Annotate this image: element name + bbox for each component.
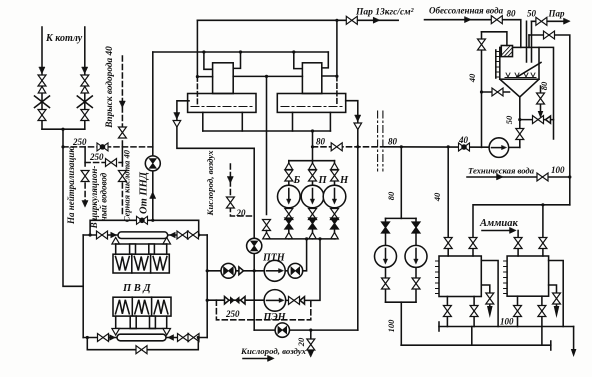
hatch ticks tank2 xyxy=(504,261,508,294)
svg-text:50: 50 xyxy=(527,9,537,19)
svg-text:40: 40 xyxy=(458,135,469,145)
node stub3 xyxy=(292,50,295,53)
pump discharge header xyxy=(267,238,336,240)
Б П Н pump group header xyxy=(289,160,335,162)
svg-text:80: 80 xyxy=(386,191,396,200)
svg-text:250: 250 xyxy=(89,152,104,162)
wire stub into column2 right xyxy=(322,52,329,68)
node top bypass legs xyxy=(89,233,92,236)
valve on hydrogen line xyxy=(118,127,126,138)
arrow on pipe 1 xyxy=(39,67,45,74)
valves below pump Б xyxy=(285,209,293,220)
stub pipes bottom heater xyxy=(130,316,136,328)
ПЭН pump xyxy=(264,290,286,312)
W coil 1 xyxy=(116,257,130,271)
svg-text:100: 100 xyxy=(386,319,396,333)
valve demin xyxy=(491,16,502,24)
flange triangle pipe 2 xyxy=(81,87,89,94)
boiler feed pipe 1 (К котлу) xyxy=(41,27,43,129)
svg-text:К котлу: К котлу xyxy=(45,33,83,44)
arrow end neutralization xyxy=(82,201,88,208)
tank left circuit 40 xyxy=(481,32,483,148)
feed pump ПВН xyxy=(489,138,509,158)
tank2 legs xyxy=(292,112,294,131)
cone tip drain / pump discharge riser xyxy=(519,97,521,147)
svg-text:От ПНД: От ПНД xyxy=(139,171,150,214)
ПТН discharge riser xyxy=(303,239,307,271)
neutralization branch V1 xyxy=(84,147,86,166)
svg-text:Впрыск водорода 40: Впрыск водорода 40 xyxy=(104,46,115,129)
node riser tee xyxy=(151,219,154,222)
tank1 legs xyxy=(202,112,204,131)
node stub2 xyxy=(239,50,242,53)
inter header drops xyxy=(472,327,542,346)
ПВД right edge xyxy=(206,235,208,338)
svg-text:П В Д: П В Д xyxy=(122,283,151,294)
wire: left main downcomer xyxy=(63,129,83,286)
technical water line xyxy=(467,176,570,178)
valve on bottom bypass xyxy=(136,346,147,354)
control valve circle on crossover xyxy=(275,323,289,337)
control valve circle on riser xyxy=(145,156,160,171)
bottom suction crossover line xyxy=(254,329,358,331)
oxygen line to ПТН suction (dashed 20) xyxy=(230,164,254,216)
svg-text:50: 50 xyxy=(504,115,514,124)
valve on drain header xyxy=(97,143,108,151)
feed tank body xyxy=(500,47,539,79)
hydrogen injection line (dashed, Впрыск водорода 40) xyxy=(121,56,123,147)
deaerator tank 1 xyxy=(188,94,256,113)
svg-text:100: 100 xyxy=(551,165,565,175)
tank2 side drain with valve xyxy=(549,285,557,306)
valve 40 on feed line xyxy=(459,143,470,151)
steam supply line Пар xyxy=(532,20,568,22)
cross line at 119.6 xyxy=(520,119,554,121)
acid line lower part (Серная кислота) xyxy=(121,147,123,166)
svg-text:Аммиак: Аммиак xyxy=(479,218,518,229)
overflow 80 line xyxy=(539,47,554,139)
droppers from bottom box xyxy=(116,316,167,328)
valve on 80 line xyxy=(331,143,342,151)
svg-text:40: 40 xyxy=(432,192,442,202)
annotation arrow ammonia xyxy=(482,230,513,232)
svg-text:Пар: Пар xyxy=(548,9,566,19)
top bypass pipe xyxy=(90,220,199,235)
valve on neutralization branch xyxy=(81,171,89,182)
suction control valve in circle xyxy=(221,263,236,278)
svg-text:Техническая вода: Техническая вода xyxy=(468,166,535,176)
dosing branch 1 xyxy=(385,218,387,302)
section break marks (dash-dot pair) xyxy=(377,111,379,171)
svg-text:ПЭН: ПЭН xyxy=(263,312,287,323)
valves below pump П xyxy=(309,209,317,220)
ПЭН discharge xyxy=(286,239,320,301)
anchor triangles bottom xyxy=(109,334,116,341)
svg-text:Пар 13кгс/см²: Пар 13кгс/см² xyxy=(355,8,415,18)
ПТН suction line xyxy=(207,270,264,272)
drop to waste header xyxy=(400,302,402,345)
dosing pump 2 xyxy=(405,245,427,267)
pump Н xyxy=(323,185,346,208)
connector line above bottom capsule xyxy=(116,328,167,330)
valve below pump 1 xyxy=(382,278,390,289)
valve on top bypass xyxy=(137,216,148,224)
ammonia inlet stub xyxy=(517,231,519,257)
drain header 100 xyxy=(439,326,574,328)
svg-text:ный водовод: ный водовод xyxy=(99,172,109,221)
tank bottom link xyxy=(482,91,510,93)
upper right link line xyxy=(529,35,570,205)
top capsule (group protection device) xyxy=(118,232,168,239)
wire stub into column1 right xyxy=(233,52,240,68)
connector line under capsule xyxy=(116,243,167,245)
bottom capsule xyxy=(117,334,166,341)
svg-text:Б: Б xyxy=(293,175,301,186)
wire stub into column2 left xyxy=(294,52,303,69)
arrow steam export xyxy=(373,17,380,23)
W coil 2 xyxy=(134,257,148,271)
svg-text:80: 80 xyxy=(507,9,517,19)
svg-text:80: 80 xyxy=(388,137,398,147)
node drain tee xyxy=(61,145,64,148)
svg-text:80: 80 xyxy=(539,81,549,90)
ПЭН suction line xyxy=(207,299,264,301)
boiler feed pipe 2 xyxy=(84,27,86,129)
pump Б xyxy=(278,185,301,208)
top heater box xyxy=(113,254,169,273)
deaerator tank 2 xyxy=(277,94,345,113)
valves below pump Н xyxy=(331,209,339,220)
arrow on hydrogen line xyxy=(119,101,125,108)
svg-text:40: 40 xyxy=(467,73,477,83)
deaerator column 1 xyxy=(213,63,234,94)
80 line to feed pump (dashed then solid) xyxy=(313,146,385,148)
40 line drop to tank1 xyxy=(447,147,449,256)
tank2 right top outlet xyxy=(549,261,564,327)
valve below pump 2 xyxy=(412,278,420,289)
arrow up on riser xyxy=(150,192,156,199)
node bottom bypass legs xyxy=(86,336,89,339)
deaerator column 2 xyxy=(302,63,321,94)
anchor triangle left xyxy=(111,232,118,239)
svg-text:250: 250 xyxy=(225,309,240,319)
tank2 right drain with check valve xyxy=(346,101,358,330)
valve on ПЭН discharge xyxy=(289,296,300,304)
waste header bottom xyxy=(401,344,551,346)
suction valve group xyxy=(225,297,230,305)
valve bottom edge left xyxy=(98,334,109,342)
risers from heater box xyxy=(116,244,167,254)
under-capsule triangles xyxy=(112,238,120,245)
svg-text:20: 20 xyxy=(236,208,247,218)
flange triangle pipe 1 xyxy=(38,87,46,94)
M coil 2 xyxy=(135,300,149,314)
ammonia tank 2 xyxy=(507,256,548,296)
wire stub into column1 left xyxy=(204,52,213,69)
tank cone bottom xyxy=(500,79,539,97)
level line tank2 xyxy=(281,106,342,108)
steam drop to deaerator 1 xyxy=(196,20,198,76)
branch П xyxy=(312,161,314,239)
tank2 bottom pipes xyxy=(517,296,519,326)
hatch ticks tank1 xyxy=(436,261,440,294)
valve top edge left xyxy=(97,231,108,239)
circulation line 250 (dashed) xyxy=(85,162,122,164)
ПНД riser xyxy=(152,52,154,220)
valves bottom edge right xyxy=(178,334,189,342)
oxygen blow-off stub xyxy=(310,330,312,352)
crossover pipes xyxy=(197,76,212,78)
ПВД outer enclosure left edge xyxy=(82,235,84,338)
demin water line xyxy=(425,20,521,48)
valve 50 on riser xyxy=(516,129,524,140)
steam header to deaerators xyxy=(197,19,398,21)
anchor triangle right xyxy=(169,232,176,239)
node stub1 xyxy=(202,50,205,53)
deaerator overflow line down (266.5) xyxy=(266,76,268,214)
branch Б xyxy=(288,161,290,239)
node downcomer xyxy=(311,129,314,132)
booster valve circle xyxy=(285,270,288,272)
tank1 left drain with check valve xyxy=(177,101,254,149)
ПТН pump xyxy=(264,260,285,281)
condensate distribution line A xyxy=(153,51,328,53)
arrow on pipe 2 xyxy=(82,67,88,74)
svg-text:80: 80 xyxy=(316,137,326,147)
valve on tank1 pipe2 xyxy=(469,238,477,249)
level line tank1 xyxy=(191,106,252,108)
ammonia tank 1 xyxy=(439,256,481,297)
valve on 266 line xyxy=(263,220,271,231)
svg-text:Обессоленная вода: Обессоленная вода xyxy=(429,6,504,16)
ladder on tank left xyxy=(495,50,497,78)
node crossover tee xyxy=(265,75,268,78)
bottom heater box xyxy=(113,297,171,316)
dosing pumps riser xyxy=(400,147,402,219)
cross X on pipe 1 xyxy=(35,96,50,108)
drain drop line from tank1 xyxy=(253,148,255,330)
valve 2 on pipe 1 xyxy=(38,110,46,121)
W coil 3 xyxy=(153,257,167,271)
svg-text:250: 250 xyxy=(72,137,87,147)
valve on pipe 2 xyxy=(81,75,89,86)
svg-text:Серная кислота 40: Серная кислота 40 xyxy=(122,149,132,222)
svg-text:Кислород, воздух: Кислород, воздух xyxy=(240,346,307,356)
svg-text:Н: Н xyxy=(339,175,349,186)
branch Н xyxy=(334,161,336,239)
legs collecting line xyxy=(203,130,331,132)
valve on pipe 1 xyxy=(38,75,46,86)
hatched filter box xyxy=(501,46,512,57)
ammonia distribution header xyxy=(473,205,570,256)
svg-text:На нейтрализацию: На нейтрализацию xyxy=(66,146,76,225)
stub pipes top heater xyxy=(130,244,136,254)
valve 2 on pipe 2 xyxy=(81,110,89,121)
valve on steam export xyxy=(346,16,357,24)
valve on circulation line xyxy=(106,159,117,167)
tank1 side drain with valve xyxy=(481,285,490,306)
dosing pumps bottom header xyxy=(386,301,417,303)
wire: pipes merge xyxy=(42,128,85,130)
steam diffuser diagonal xyxy=(517,63,541,78)
pump П xyxy=(301,185,324,208)
arrow demin xyxy=(465,17,472,23)
ПВД bottom edge xyxy=(83,337,207,339)
vent stub with valve xyxy=(540,86,542,112)
valve on acid line xyxy=(118,171,126,182)
dosing branch 2 xyxy=(415,218,417,302)
annotation arrow xyxy=(243,358,271,360)
tank1 right top outlet xyxy=(481,261,498,327)
node merge xyxy=(61,128,64,131)
dosing pumps top header xyxy=(386,217,417,219)
M coil 1 xyxy=(116,300,130,314)
tank1 bottom pipes xyxy=(446,297,448,327)
svg-text:100: 100 xyxy=(500,317,514,327)
svg-text:П: П xyxy=(318,175,328,186)
wire: drain header 250 (dashed) xyxy=(63,146,153,148)
cross X on pipe 2 xyxy=(77,96,92,108)
ПВД top edge xyxy=(83,234,207,236)
steam pipe into tank (double line) xyxy=(527,21,532,62)
bottom bypass pipe xyxy=(87,338,198,350)
sparger inside tank xyxy=(505,77,536,79)
tank2 pipe from header xyxy=(542,205,544,256)
valves top edge right xyxy=(177,231,188,239)
svg-text:ПТН: ПТН xyxy=(262,253,286,264)
drain header outlet arrow xyxy=(573,327,575,350)
over-capsule triangles bottom xyxy=(112,329,120,336)
steam drop to deaerator 2 xyxy=(336,20,338,76)
recirculation 250 (dashed) xyxy=(216,300,310,320)
svg-text:Кислород, воздух: Кислород, воздух xyxy=(205,150,215,217)
M coil 3 xyxy=(154,300,168,314)
main condensate downcomer to pumps xyxy=(312,131,314,161)
control valve circle on drop line xyxy=(247,238,262,253)
dosing pump 1 xyxy=(375,245,397,267)
